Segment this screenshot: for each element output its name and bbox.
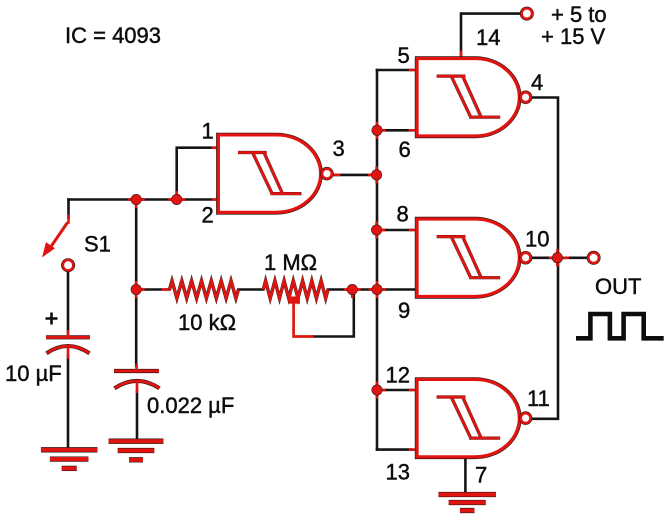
capacitor C2 red stubs bbox=[135, 365, 138, 392]
node: junction dot resistor branch bbox=[136, 288, 145, 291]
red stub from OUT junction bbox=[557, 256, 567, 259]
resistor R1 10 kOhm zigzag bbox=[170, 281, 239, 299]
output inversion bubble of U1D (pins 12,13 -> 11) bbox=[521, 413, 531, 423]
wire: pin 7 down to ground bbox=[464, 457, 467, 492]
output inversion bubble of U1A (pins 1,2 -> 3) bbox=[322, 169, 332, 179]
wire: central vertical bus bbox=[376, 70, 379, 450]
potentiometer R2 wiper red lead bbox=[294, 302, 313, 337]
output inversion bubble of U1C (pins 8,9 -> 10) bbox=[521, 253, 531, 263]
wire: pin 8 lead bbox=[377, 229, 412, 232]
red stub before R1 bbox=[163, 288, 170, 291]
wire: switch terminal to capacitor C1 bbox=[67, 271, 70, 334]
op-amp-style NAND gate U1C (pins 8,9 -> 10) body bbox=[417, 219, 519, 297]
svg-text:14: 14 bbox=[476, 25, 500, 50]
node: junction dot bus / pin 12 bbox=[377, 389, 386, 392]
Schmitt trigger hysteresis symbol inside U1C (pins 8,9 -> 10) bbox=[437, 237, 500, 278]
wire: pin 12 lead bbox=[377, 389, 412, 392]
svg-text:12: 12 bbox=[386, 363, 410, 388]
wire: node A vertical from main net down to C2 and resistor net bbox=[135, 200, 138, 367]
svg-text:1: 1 bbox=[202, 119, 214, 144]
ground symbol under C2 bbox=[109, 439, 164, 444]
wire: pin 13 lead bbox=[377, 448, 412, 451]
power supply terminal circle bbox=[522, 8, 532, 18]
wire: resistor net R1 left lead bbox=[136, 288, 169, 291]
red stub after U1A output bubble bbox=[332, 174, 339, 177]
red stub pin 2 bbox=[213, 198, 218, 201]
wire: R2 wiper feedback loop bbox=[312, 292, 354, 337]
red stub pin 12 bbox=[410, 389, 416, 392]
svg-text:11: 11 bbox=[527, 386, 550, 411]
Schmitt trigger hysteresis symbol inside U1A (pins 1,2 -> 3) bbox=[238, 153, 301, 194]
red stub pin 8 bbox=[410, 229, 416, 232]
wire: pin 14 lead up to supply rail bbox=[461, 14, 522, 58]
capacitor C1 red stubs bbox=[67, 332, 70, 358]
capacitor C1 polarity plus sign bbox=[46, 313, 58, 325]
svg-text:8: 8 bbox=[397, 202, 409, 227]
wire: switch top stub down from main net bbox=[67, 200, 70, 219]
node: junction dot bus / pin 9 bbox=[369, 288, 378, 291]
svg-text:OUT: OUT bbox=[595, 274, 641, 299]
svg-text:13: 13 bbox=[386, 460, 410, 485]
red stub at pin 14 entering gate U1B bbox=[460, 52, 463, 58]
wire: C2 bottom plate to ground bbox=[136, 391, 139, 440]
wire: jumper tying U1A pin 1 to pin 2 net bbox=[177, 148, 219, 200]
OUT terminal circle bbox=[588, 253, 598, 263]
wire: pin 6 lead bbox=[377, 129, 412, 132]
wire: C1 bottom plate to ground bbox=[67, 356, 70, 449]
svg-text:3: 3 bbox=[333, 136, 345, 161]
wire: R2 right lead to bus junction bbox=[328, 288, 377, 291]
potentiometer R2 1 MOhm zigzag bbox=[263, 281, 328, 299]
svg-text:S1: S1 bbox=[84, 232, 111, 257]
svg-text:5: 5 bbox=[398, 43, 410, 68]
switch S1 terminal circle bbox=[63, 260, 73, 270]
svg-text:4: 4 bbox=[531, 70, 543, 95]
capacitor C1 10uF top plate bbox=[46, 335, 90, 339]
red stub pin 13 bbox=[410, 448, 416, 451]
svg-text:2: 2 bbox=[202, 203, 214, 228]
svg-text:6: 6 bbox=[399, 137, 411, 162]
op-amp-style NAND gate U1A (pins 1,2 -> 3) body bbox=[218, 135, 320, 213]
potentiometer R2 wiper tap square bbox=[289, 297, 301, 304]
red stub pin 6 bbox=[410, 129, 416, 132]
output inversion bubble of U1B (pins 5,6 -> 4) bbox=[521, 92, 531, 102]
wire: lead between R1 and R2 bbox=[238, 288, 263, 291]
capacitor C2 0.022uF top plate bbox=[114, 369, 159, 373]
ground symbol at pin 7 bbox=[438, 492, 496, 497]
node: junction dot bus / output 3 bbox=[368, 174, 377, 177]
Schmitt trigger hysteresis symbol inside U1B (pins 5,6 -> 4) bbox=[437, 76, 500, 117]
node: junction dot outputs to OUT bbox=[549, 256, 558, 259]
svg-text:9: 9 bbox=[398, 298, 410, 323]
node: junction dot main net / C2 branch bbox=[128, 198, 137, 201]
svg-text:10 µF: 10 µF bbox=[5, 361, 62, 386]
wire: output 10 to OUT terminal bbox=[530, 256, 589, 259]
svg-text:+ 15 V: + 15 V bbox=[541, 24, 606, 49]
square wave output symbol bbox=[576, 314, 664, 338]
switch S1 arm with arrowhead bbox=[50, 223, 68, 249]
svg-text:7: 7 bbox=[475, 463, 487, 488]
wire: pin 9 lead from bus to gate U1C bbox=[377, 288, 418, 291]
svg-text:10: 10 bbox=[525, 227, 549, 252]
capacitor C2 curved bottom plate bbox=[115, 381, 160, 388]
red stub pin 5 bbox=[410, 69, 416, 72]
svg-text:0.022 µF: 0.022 µF bbox=[147, 393, 234, 418]
ground symbol under C1 bbox=[41, 447, 97, 452]
node: junction dot wiper tie bbox=[344, 288, 353, 291]
wire: output 4 across and down right side to output 11 bbox=[530, 98, 558, 419]
wire: gate U1A output 3 to bus bbox=[332, 174, 377, 177]
op-amp-style NAND gate U1D (pins 12,13 -> 11) body bbox=[417, 379, 519, 457]
svg-text:10 kΩ: 10 kΩ bbox=[178, 310, 236, 335]
wire: main horizontal net from switch S1 to gate U1A pin 2 bbox=[69, 198, 219, 201]
svg-text:IC = 4093: IC = 4093 bbox=[65, 23, 161, 48]
Schmitt trigger hysteresis symbol inside U1D (pins 12,13 -> 11) bbox=[437, 397, 500, 438]
red stub pin 1 bbox=[213, 146, 218, 149]
capacitor C1 curved bottom plate bbox=[47, 346, 90, 353]
wire: pin 5 lead bbox=[377, 69, 412, 72]
node: junction dot pin1-pin2 tie bbox=[168, 198, 177, 201]
op-amp-style NAND gate U1B (pins 5,6 -> 4) body bbox=[417, 59, 519, 137]
node: junction dot bus / pin 8 bbox=[377, 229, 386, 232]
node: junction dot bus / pin 6 bbox=[377, 129, 386, 132]
svg-text:1 MΩ: 1 MΩ bbox=[264, 250, 317, 275]
switch S1 red stub bbox=[67, 216, 70, 223]
